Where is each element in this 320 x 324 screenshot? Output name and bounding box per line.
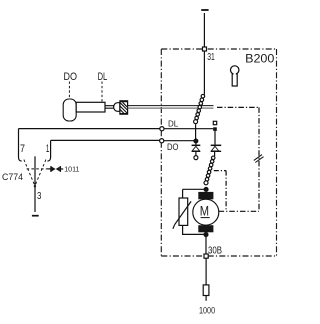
wire motor bottom down to 30B — [205, 237, 207, 255]
wire DL (pin7 to box) — [19, 128, 160, 130]
shaft dome cap — [114, 103, 120, 112]
in-line connector pair symbol — [51, 166, 63, 172]
motor top brush bar — [198, 192, 213, 199]
mechanical link dash-dot (rod to lever) — [217, 106, 259, 108]
ground bar (bottom continuation symbol) — [32, 215, 39, 217]
svg-text:B200: B200 — [245, 52, 275, 66]
wire node 31 down to switch arm — [203, 51, 205, 95]
leader line DO — [68, 82, 70, 98]
fuse / wire marker 1000 — [203, 285, 209, 296]
dashed branch to in-line connector — [27, 168, 48, 170]
junction dot motor top — [204, 187, 208, 191]
wire DO (pin1 to box) — [51, 139, 160, 141]
upper switch arm (spring contact) — [194, 94, 205, 123]
open contact terminal below D1 — [194, 156, 198, 160]
lock cylinder (keyhole symbol) — [230, 66, 238, 86]
junction dot DO/diode1 — [194, 139, 198, 143]
pin 1 lead — [50, 140, 52, 157]
wire down to fuse — [205, 258, 207, 285]
actuator shaft (double line) — [105, 106, 114, 109]
svg-text:DO: DO — [64, 71, 78, 83]
svg-text:DO: DO — [167, 142, 179, 152]
thermistor (PTC resistor) — [173, 198, 191, 229]
svg-text:30B: 30B — [208, 245, 222, 256]
lower switch arm (spring contact) — [204, 156, 215, 185]
lock actuator body (capsule) — [63, 99, 76, 121]
motor bottom brush bar — [198, 225, 213, 232]
svg-text:DL: DL — [98, 71, 108, 83]
pin 3 wire — [34, 156, 36, 212]
svg-text:3: 3 — [37, 191, 42, 202]
control unit box B200 (dash-dot outline) — [161, 49, 276, 256]
mechanical link to lower contact — [214, 170, 226, 172]
svg-text:7: 7 — [20, 143, 25, 155]
diode D2 — [211, 131, 222, 156]
pin 7 lead — [18, 129, 20, 158]
actuation slash marks — [254, 155, 264, 163]
svg-text:1: 1 — [46, 143, 50, 155]
hatched coupler — [120, 101, 128, 114]
node 31 (terminal square on box edge) — [203, 47, 207, 51]
wire from top bar to node 31 — [203, 13, 205, 47]
svg-text:C774: C774 — [2, 172, 23, 182]
mechanical link vertical — [258, 107, 260, 211]
junction dot motor bottom — [204, 233, 208, 237]
terminal circle DL — [160, 127, 164, 131]
diode D1 — [192, 143, 201, 155]
mechanical rod (double line to switch) — [128, 105, 214, 107]
leader line DL — [101, 82, 103, 102]
connector C774 funnel (dashed V) — [24, 160, 35, 186]
terminal circle DO — [160, 139, 164, 143]
motor M1 body — [193, 199, 219, 225]
node 30B (terminal square on box edge) — [204, 254, 208, 258]
svg-text:31: 31 — [207, 51, 215, 63]
svg-text:1000: 1000 — [199, 306, 215, 316]
svg-text:DL: DL — [168, 120, 179, 129]
junction square on DL — [213, 127, 217, 131]
actuator barrel — [76, 102, 105, 112]
wire below fuse — [205, 296, 207, 301]
wire DL inside box — [164, 128, 213, 130]
svg-text:1011: 1011 — [64, 165, 79, 174]
wire DO inside box — [164, 140, 194, 142]
wire resistor top to motor top — [183, 188, 204, 190]
wire resistor bottom — [183, 225, 204, 234]
motor letter underline — [201, 217, 210, 219]
ground bar (top continuation symbol) — [201, 9, 208, 11]
svg-text:M: M — [200, 203, 209, 218]
wire resistor top stub — [182, 189, 184, 198]
terminal square above DL junction — [213, 121, 216, 124]
mechanical link lower horizontal — [219, 210, 259, 212]
stub from arm tip through DL to DO junction — [195, 124, 197, 139]
